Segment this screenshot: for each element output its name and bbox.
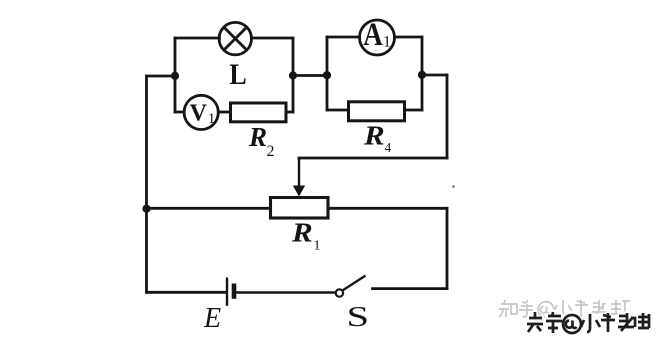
arrow head of slider [293, 186, 305, 197]
svg-text:L: L [229, 58, 246, 91]
gray char hu [519, 300, 533, 317]
watermark gray "zhihu @xiaoniu wuli" drawn strokes [499, 300, 632, 317]
wire ammeter branch right vertical [421, 37, 424, 110]
svg-text:V: V [190, 101, 208, 127]
wire lamp top right segment [252, 37, 294, 40]
svg-text:1: 1 [314, 239, 321, 254]
svg-text:S: S [347, 301, 370, 333]
wire bottom left [147, 291, 227, 294]
black char li [638, 313, 649, 328]
svg-text:4: 4 [385, 140, 392, 155]
wire battery to switch [237, 291, 335, 293]
gray char wu [592, 300, 606, 314]
svg-text:E: E [203, 303, 221, 334]
label R2 [248, 122, 275, 160]
svg-text:R: R [363, 121, 385, 151]
black char xiao [581, 314, 600, 332]
wire voltmeter feed [175, 111, 184, 114]
wire lamp branch right vertical [292, 38, 295, 112]
label R4 [363, 121, 392, 155]
lamp L [219, 22, 251, 54]
node dot junction left lamp [171, 72, 179, 80]
wire slider horizontal [299, 157, 447, 160]
node dot junction left ammeter [323, 71, 331, 79]
battery E plates [227, 278, 234, 306]
wire lamp top left segment [175, 37, 220, 40]
svg-text:R: R [291, 218, 313, 248]
node dot junction right lamp [289, 71, 297, 79]
gray char xiao [554, 300, 572, 317]
svg-text:1: 1 [383, 34, 391, 51]
resistor R4 [349, 102, 405, 121]
wire node to right drop [422, 74, 447, 77]
black char niu [601, 313, 615, 332]
voltmeter V1 [184, 95, 218, 129]
wire lamp branch left vertical [174, 38, 177, 112]
wire between parallel groups [293, 74, 327, 77]
speck artifact [452, 185, 455, 188]
wire ammeter top right segment [395, 36, 423, 39]
wire left rail [145, 76, 148, 292]
black at-sign [563, 315, 581, 333]
label V1 [190, 101, 216, 127]
switch S [336, 276, 366, 297]
gray char zhi [499, 300, 517, 317]
rheostat R1 [271, 198, 329, 219]
watermark black "toutiao @xiaoniu wuli" drawn strokes [527, 312, 649, 333]
wire right drop to slider level [446, 75, 449, 158]
wire switch right contact [373, 287, 448, 290]
node dot junction right ammeter [418, 71, 426, 79]
svg-text:2: 2 [267, 143, 275, 160]
black char wu [618, 313, 635, 331]
wire rail to R1 [147, 207, 271, 210]
wire slider vertical [298, 158, 300, 187]
gray char li [611, 300, 632, 316]
wire right rail lower [446, 208, 449, 288]
black char tiao [546, 312, 562, 333]
wire ammeter top left segment [327, 36, 360, 39]
svg-text:A: A [363, 17, 383, 53]
gray char niu [575, 300, 588, 317]
node dot on left rail [142, 205, 150, 213]
ammeter A1 [360, 20, 395, 55]
resistor R2 [231, 103, 287, 122]
black char tou [527, 312, 543, 332]
svg-text:R: R [248, 122, 267, 152]
wire to R4 left [327, 109, 349, 112]
svg-text:1: 1 [208, 111, 216, 127]
wire ammeter branch left vertical [326, 37, 329, 110]
wire V1 to R2 [218, 111, 230, 114]
wire top feed from rail to node [147, 75, 176, 78]
label R1 [291, 218, 321, 253]
wire R1 to right rail [328, 207, 447, 210]
wire R2 to node [286, 111, 293, 114]
gray at-sign [538, 302, 554, 318]
wire R4 to node [405, 109, 423, 112]
label A1 [363, 17, 391, 53]
